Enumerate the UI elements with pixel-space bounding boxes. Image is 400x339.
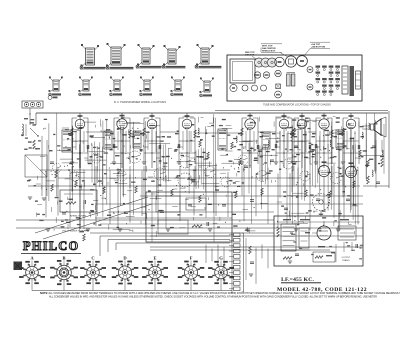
svg-text:F: F xyxy=(190,256,193,261)
svg-text:C: C xyxy=(91,256,94,261)
svg-text:+5A TOP: +5A TOP xyxy=(311,43,321,46)
svg-text:TUBE AND COMPENSATOR LOCATI: TUBE AND COMPENSATOR LOCATIONS—TOP OF CH… xyxy=(263,104,331,107)
svg-text:AERIAL TUNER: AERIAL TUNER xyxy=(70,215,86,218)
svg-text:34A CENTER: 34A CENTER xyxy=(262,47,276,50)
svg-text:PHILCO: PHILCO xyxy=(23,239,79,253)
svg-text:34B BOT.: 34B BOT. xyxy=(245,54,255,57)
svg-text:+5B BOTTOM: +5B BOTTOM xyxy=(311,47,325,49)
svg-text:E: E xyxy=(153,256,156,261)
svg-text:OUTPUT: OUTPUT xyxy=(342,257,352,259)
svg-text:G: G xyxy=(219,256,223,261)
svg-text:TRANS.: TRANS. xyxy=(342,259,350,262)
svg-text:B: B xyxy=(62,256,65,261)
svg-text:R. F. TRANSFORMER WIRING LO: R. F. TRANSFORMER WIRING LOCATIONS xyxy=(114,100,166,104)
svg-text:ALL CONDENSER VALUES IN MFD. A: ALL CONDENSER VALUES IN MFD. AND RESISTO… xyxy=(49,295,378,298)
svg-text:I.F.=455 KC.: I.F.=455 KC. xyxy=(281,277,314,283)
svg-text:NOTE:: NOTE: xyxy=(40,291,48,295)
